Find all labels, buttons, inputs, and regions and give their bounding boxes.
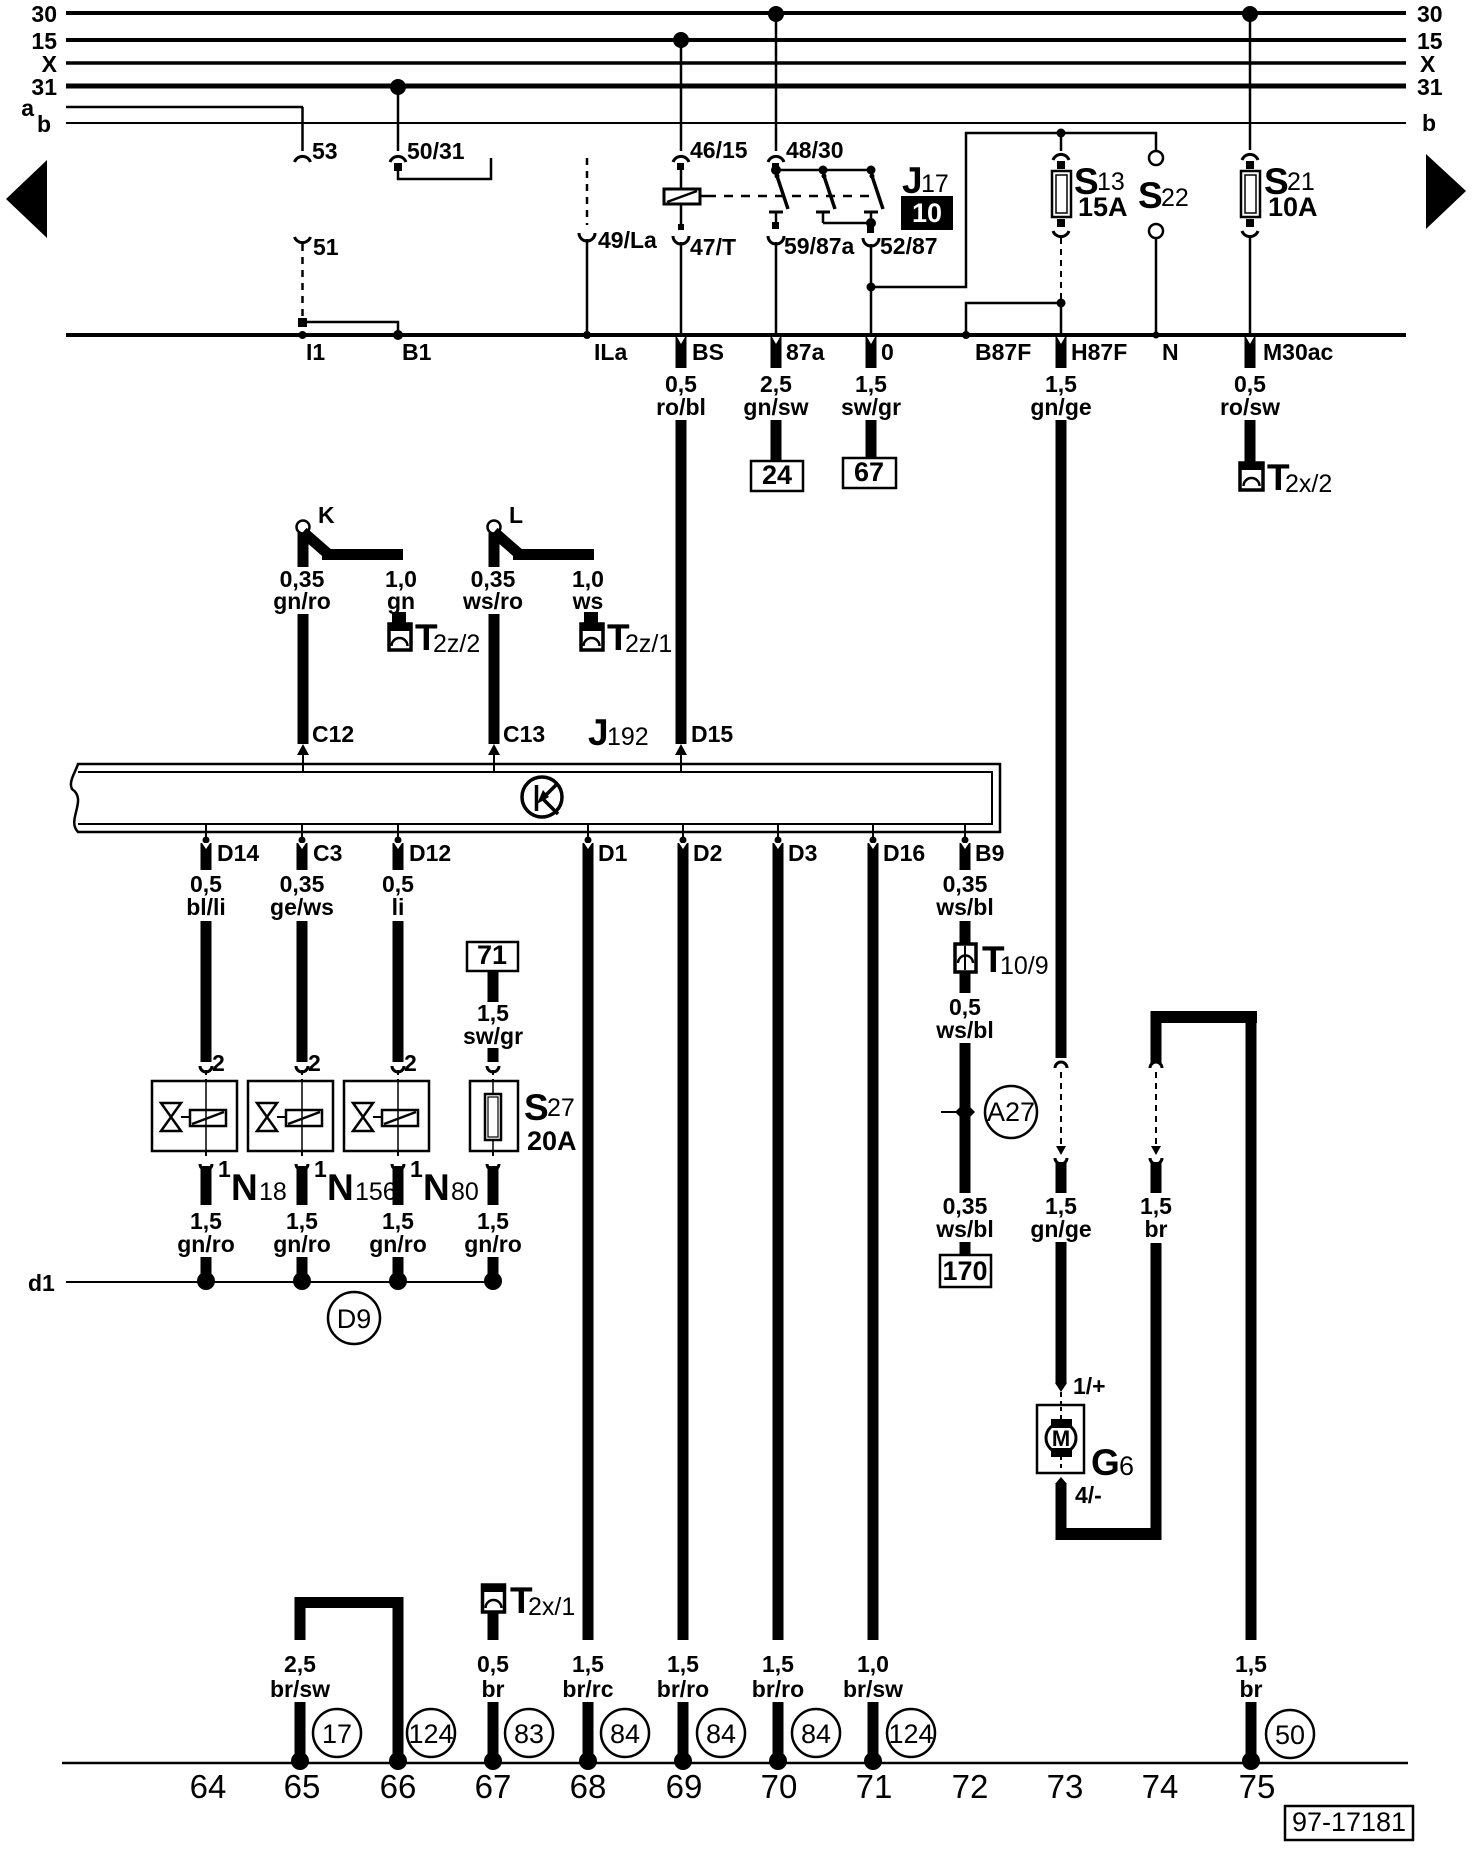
svg-text:ws/bl: ws/bl	[935, 1216, 994, 1242]
ground connector box 67	[843, 457, 896, 488]
pin 2 N18	[200, 1050, 225, 1081]
svg-text:192: 192	[607, 723, 649, 751]
connector K	[297, 502, 404, 567]
svg-text:D2: D2	[693, 840, 722, 866]
svg-text:31: 31	[31, 74, 57, 100]
ground designation D9	[328, 1292, 380, 1344]
wire stub H87F	[1056, 337, 1067, 368]
svg-text:ws/bl: ws/bl	[935, 894, 994, 920]
wire M30ac to T2x/2	[1245, 420, 1256, 463]
svg-text:1,5: 1,5	[1235, 1651, 1267, 1677]
svg-text:18: 18	[259, 1178, 287, 1206]
J17 designation	[902, 160, 949, 201]
svg-text:97-17181: 97-17181	[1292, 1807, 1406, 1837]
wire ILa / 49La	[579, 158, 657, 339]
pin B9	[962, 824, 1005, 866]
node d1	[28, 1270, 493, 1296]
wire br right leg of G6 loop	[1151, 1243, 1162, 1540]
svg-text:ws: ws	[572, 588, 604, 614]
connector T2x/1	[483, 1580, 576, 1621]
svg-text:30: 30	[31, 1, 57, 27]
svg-text:6: 6	[1119, 1451, 1134, 1481]
svg-text:ILa: ILa	[594, 339, 627, 365]
svg-text:2: 2	[404, 1050, 417, 1076]
svg-text:87a: 87a	[786, 339, 825, 365]
svg-text:C12: C12	[312, 721, 354, 747]
wire D1 to track 68	[562, 843, 613, 1770]
wire N18 to D9	[177, 1166, 235, 1290]
bus a	[21, 95, 303, 121]
svg-text:84: 84	[801, 1719, 831, 1749]
wire S27 to D9	[464, 1166, 522, 1290]
svg-text:M: M	[1052, 1426, 1070, 1451]
svg-text:84: 84	[706, 1719, 736, 1749]
pin D15	[675, 721, 733, 772]
svg-text:64: 64	[190, 1768, 227, 1805]
pin 1 N80	[392, 1151, 423, 1182]
wire H87F down	[1056, 420, 1067, 1058]
ground symbol 50	[1266, 1710, 1314, 1758]
svg-text:20A: 20A	[527, 1126, 577, 1156]
svg-text:68: 68	[570, 1768, 607, 1805]
svg-text:D15: D15	[691, 721, 733, 747]
wire a to terminal 53	[295, 107, 338, 164]
svg-text:0: 0	[881, 339, 894, 365]
svg-text:72: 72	[952, 1768, 989, 1805]
svg-text:0,5: 0,5	[477, 1651, 509, 1677]
junction on bus 31	[390, 79, 406, 95]
svg-text:S: S	[524, 1087, 549, 1128]
contact blade 2	[822, 174, 836, 210]
svg-text:1,5: 1,5	[667, 1651, 699, 1677]
ground symbol 84c	[792, 1709, 840, 1757]
svg-text:1: 1	[218, 1156, 231, 1182]
ground symbol 124	[407, 1709, 455, 1757]
wire stub 0	[866, 337, 877, 368]
svg-text:D9: D9	[337, 1304, 372, 1334]
valve N80	[344, 1081, 429, 1151]
svg-text:gn: gn	[387, 588, 415, 614]
svg-text:gn/ro: gn/ro	[177, 1231, 235, 1257]
N18 designation	[231, 1167, 287, 1208]
bridge track 65 to 66	[270, 1597, 407, 1770]
wire D2 to track 69	[657, 843, 709, 1770]
bus 30	[31, 1, 1442, 27]
connector T2z/1	[581, 612, 672, 658]
svg-text:B87F: B87F	[975, 339, 1031, 365]
junction on bus 30 (S21)	[1242, 6, 1258, 22]
svg-text:S: S	[1138, 175, 1163, 216]
pin 2 N80	[392, 1050, 417, 1081]
wire stub M30ac	[1245, 337, 1256, 368]
svg-text:59/87a: 59/87a	[784, 233, 855, 259]
terminal 47/T	[673, 204, 736, 334]
svg-text:69: 69	[666, 1768, 703, 1805]
svg-text:71: 71	[477, 940, 507, 970]
valve N156	[248, 1081, 333, 1151]
wire 52/87 to S13/S22 top	[867, 129, 1157, 292]
svg-text:gn/ge: gn/ge	[1030, 394, 1091, 420]
svg-text:52/87: 52/87	[880, 233, 938, 259]
ground symbol 83	[505, 1709, 553, 1757]
wire D14 to N18	[186, 843, 226, 1062]
svg-text:A27: A27	[987, 1097, 1035, 1127]
svg-text:74: 74	[1142, 1768, 1179, 1805]
terminal labels under bus	[306, 339, 1334, 365]
wire N80 to D9	[369, 1166, 427, 1290]
relay coil J17	[664, 189, 707, 204]
svg-text:31: 31	[1417, 74, 1443, 100]
wire D16 to track 71	[843, 843, 903, 1770]
svg-text:1,0: 1,0	[857, 1651, 889, 1677]
wire gn/ge to G6	[1030, 1162, 1105, 1405]
pump motor G6	[1037, 1405, 1134, 1483]
fuse S13	[1052, 133, 1128, 334]
wire T2x/1 to track 67	[477, 1612, 509, 1770]
svg-text:G: G	[1091, 1442, 1120, 1483]
svg-text:1,5: 1,5	[762, 1651, 794, 1677]
svg-text:2z/1: 2z/1	[625, 630, 672, 658]
wire stub 87a	[771, 337, 782, 368]
svg-text:2x/1: 2x/1	[528, 1593, 575, 1621]
connector L	[488, 502, 595, 567]
svg-text:sw/gr: sw/gr	[841, 394, 901, 420]
svg-text:BS: BS	[692, 339, 724, 365]
svg-text:2z/2: 2z/2	[433, 630, 480, 658]
svg-text:D12: D12	[409, 840, 451, 866]
ground symbol 124b	[887, 1709, 935, 1757]
J192 designation	[588, 712, 649, 753]
ground connector box 71	[467, 940, 518, 971]
wire T10/9 to A27	[935, 972, 994, 1193]
svg-text:70: 70	[761, 1768, 798, 1805]
svg-text:ws/ro: ws/ro	[462, 588, 523, 614]
svg-text:80: 80	[451, 1178, 479, 1206]
ground connector box 24	[751, 460, 803, 491]
wiring designation A27	[985, 1086, 1037, 1138]
svg-text:br: br	[1145, 1216, 1168, 1242]
svg-text:49/La: 49/La	[598, 227, 657, 253]
current track numbers	[190, 1768, 1276, 1805]
svg-text:17: 17	[921, 170, 949, 198]
wire br labels	[1140, 1162, 1172, 1242]
switch S22	[1138, 151, 1189, 339]
wire A27 to 170	[935, 1193, 994, 1255]
bus X	[42, 51, 1436, 77]
svg-text:gn/ro: gn/ro	[273, 588, 331, 614]
svg-text:M30ac: M30ac	[1263, 339, 1334, 365]
junction on bus 15	[673, 32, 689, 48]
component terminal bus	[66, 333, 1406, 337]
pin C12	[297, 721, 354, 772]
left page arrow	[6, 160, 47, 238]
svg-text:br: br	[1240, 1676, 1263, 1702]
svg-text:gn/sw: gn/sw	[743, 394, 808, 420]
pin 1 N156	[296, 1151, 327, 1182]
svg-text:156: 156	[355, 1178, 397, 1206]
terminal 52/87	[863, 212, 938, 334]
pin D3	[775, 824, 818, 866]
svg-text:65: 65	[284, 1768, 321, 1805]
wire 31 to terminal 50/31	[390, 88, 491, 179]
wire B87F	[962, 299, 1066, 340]
svg-text:1/+: 1/+	[1073, 1373, 1106, 1399]
wire loop right leg to track 75	[1235, 1011, 1267, 1770]
wire K to C12	[298, 614, 309, 744]
svg-text:71: 71	[856, 1768, 893, 1805]
svg-text:C13: C13	[503, 721, 545, 747]
svg-text:2,5: 2,5	[284, 1651, 316, 1677]
pin D1	[585, 824, 628, 866]
svg-text:br/rc: br/rc	[562, 1676, 613, 1702]
wire BS to D15	[676, 420, 687, 744]
svg-text:10: 10	[912, 198, 942, 228]
svg-text:br/ro: br/ro	[657, 1676, 709, 1702]
terminal 59/87a	[768, 212, 855, 334]
svg-text:1,5: 1,5	[572, 1651, 604, 1677]
svg-text:1: 1	[410, 1156, 423, 1182]
wire loop left leg	[1151, 1011, 1162, 1063]
svg-text:br/sw: br/sw	[843, 1676, 903, 1702]
pin 4/- G6	[1055, 1477, 1102, 1535]
svg-text:br/ro: br/ro	[752, 1676, 804, 1702]
svg-text:N: N	[1162, 339, 1179, 365]
svg-text:170: 170	[942, 1256, 987, 1286]
svg-text:75: 75	[1239, 1768, 1276, 1805]
wire label 1,0 gn	[385, 566, 417, 614]
svg-text:50/31: 50/31	[407, 138, 465, 164]
svg-text:124: 124	[408, 1719, 453, 1749]
ground track bus	[62, 1762, 1408, 1765]
wire L to C13	[489, 614, 500, 744]
svg-text:53: 53	[312, 138, 338, 164]
svg-text:50: 50	[1275, 1720, 1305, 1750]
terminal 51 with bridge I1-B1	[295, 234, 404, 340]
right page arrow	[1426, 154, 1466, 229]
svg-text:D1: D1	[598, 840, 628, 866]
svg-text:17: 17	[322, 1719, 352, 1749]
svg-text:66: 66	[380, 1768, 417, 1805]
wire labels 0,35 gn/ro	[273, 566, 331, 614]
wire D12 to N80	[382, 843, 414, 1062]
svg-text:sw/gr: sw/gr	[463, 1023, 523, 1049]
pin 2 N156	[296, 1050, 321, 1081]
ground symbol 84	[601, 1709, 649, 1757]
svg-text:83: 83	[514, 1719, 544, 1749]
wire D3 to track 70	[752, 843, 804, 1770]
svg-text:b: b	[37, 111, 51, 137]
svg-text:10A: 10A	[1268, 192, 1318, 222]
svg-text:124: 124	[888, 1719, 933, 1749]
pin S27 top	[487, 1066, 499, 1081]
wire 15 to 46/15	[673, 42, 748, 189]
pin C13	[488, 721, 545, 772]
pin 1 N18	[200, 1151, 231, 1182]
wire br break connector	[1150, 1062, 1162, 1164]
bus b	[37, 110, 1436, 137]
wire labels row below bus	[656, 371, 1280, 420]
svg-text:gn/ro: gn/ro	[464, 1231, 522, 1257]
svg-text:27: 27	[547, 1094, 575, 1122]
svg-text:ro/sw: ro/sw	[1220, 394, 1280, 420]
fuse S27	[470, 1081, 577, 1156]
svg-text:gn/ro: gn/ro	[273, 1231, 331, 1257]
fuse S21	[1241, 15, 1318, 334]
J17 relay location box 10	[901, 196, 953, 230]
wire stub BS	[676, 337, 687, 368]
svg-text:ws/bl: ws/bl	[935, 1017, 994, 1043]
svg-text:a: a	[21, 95, 34, 121]
svg-text:1: 1	[314, 1156, 327, 1182]
svg-text:51: 51	[313, 234, 339, 260]
svg-text:K: K	[318, 502, 335, 528]
svg-text:67: 67	[475, 1768, 512, 1805]
svg-text:67: 67	[854, 457, 884, 487]
wire B9 to T10/9	[935, 843, 994, 944]
svg-text:B1: B1	[402, 339, 432, 365]
bus 15	[31, 28, 1442, 54]
pin C3	[299, 824, 343, 866]
svg-text:bl/li: bl/li	[186, 894, 226, 920]
wire 87a to connector 24	[771, 420, 782, 461]
svg-text:br: br	[482, 1676, 505, 1702]
svg-text:2: 2	[212, 1050, 225, 1076]
svg-text:B9: B9	[975, 840, 1004, 866]
connector T2z/2	[389, 612, 480, 658]
junction on bus 30 (48/30)	[768, 6, 784, 22]
svg-text:10/9: 10/9	[1000, 952, 1049, 980]
wire 30 to 48/30	[768, 15, 844, 170]
mechanical linkage dashed	[707, 195, 880, 198]
ground connector box 170	[940, 1255, 991, 1287]
contact blade 1	[775, 174, 789, 210]
pin S27 bottom	[487, 1151, 499, 1170]
wire N156 to D9	[273, 1166, 331, 1290]
svg-text:gn/ge: gn/ge	[1030, 1216, 1091, 1242]
svg-text:2: 2	[308, 1050, 321, 1076]
svg-text:gn/ro: gn/ro	[369, 1231, 427, 1257]
relay contact rail	[771, 165, 876, 175]
svg-text:4/-: 4/-	[1075, 1482, 1102, 1508]
contact blade 3	[870, 174, 884, 210]
svg-text:15A: 15A	[1078, 192, 1128, 222]
svg-text:br/sw: br/sw	[270, 1676, 330, 1702]
N156 designation	[327, 1167, 397, 1208]
svg-text:N: N	[231, 1167, 258, 1208]
wire G6 loop bottom	[1056, 1528, 1162, 1540]
svg-text:H87F: H87F	[1071, 339, 1127, 365]
svg-text:D16: D16	[883, 840, 925, 866]
svg-text:30: 30	[1417, 1, 1443, 27]
wire 71 to S27	[463, 971, 523, 1062]
svg-text:b: b	[1422, 110, 1436, 136]
svg-text:J: J	[588, 712, 609, 753]
svg-text:li: li	[392, 894, 405, 920]
svg-text:2x/2: 2x/2	[1285, 470, 1332, 498]
svg-text:D3: D3	[788, 840, 817, 866]
svg-text:84: 84	[610, 1719, 640, 1749]
pin D14	[203, 824, 260, 866]
svg-text:J: J	[902, 160, 923, 201]
node A27 junction	[941, 1102, 975, 1122]
connector T10/9	[955, 939, 1049, 980]
connector T2x/2	[1240, 457, 1332, 498]
ground symbol 17	[313, 1709, 361, 1757]
svg-text:d1: d1	[28, 1270, 55, 1296]
wire loop top bar	[1151, 1011, 1257, 1023]
wire label 1,0 ws	[572, 566, 604, 614]
K symbol in circle	[522, 777, 562, 817]
N80 designation	[423, 1167, 479, 1208]
diagram number box 97-17181	[1285, 1806, 1413, 1840]
ground symbol 84b	[697, 1709, 745, 1757]
wire H87F break connector	[1055, 1062, 1067, 1164]
pin D12	[395, 824, 452, 866]
wire labels 0,35 ws/ro	[462, 566, 523, 614]
valve N18	[152, 1081, 237, 1151]
svg-text:D14: D14	[217, 840, 259, 866]
svg-text:47/T: 47/T	[690, 234, 736, 260]
svg-text:48/30: 48/30	[786, 137, 844, 163]
bus 31	[31, 74, 1442, 100]
wire 0 to connector 67	[866, 420, 877, 458]
svg-text:N: N	[423, 1167, 450, 1208]
pin D16	[870, 824, 926, 866]
svg-text:I1: I1	[306, 339, 325, 365]
svg-text:ge/ws: ge/ws	[270, 894, 334, 920]
svg-text:N: N	[327, 1167, 354, 1208]
wire C3 to N156	[270, 843, 334, 1062]
svg-text:24: 24	[762, 460, 792, 490]
svg-text:ro/bl: ro/bl	[656, 394, 706, 420]
svg-text:C3: C3	[313, 840, 342, 866]
pin D2	[680, 824, 723, 866]
svg-text:73: 73	[1047, 1768, 1084, 1805]
svg-text:L: L	[509, 502, 523, 528]
svg-text:22: 22	[1161, 184, 1189, 212]
contact 2 lower T	[816, 212, 871, 223]
control unit J192 box	[71, 764, 1000, 832]
svg-text:46/15: 46/15	[690, 137, 748, 163]
